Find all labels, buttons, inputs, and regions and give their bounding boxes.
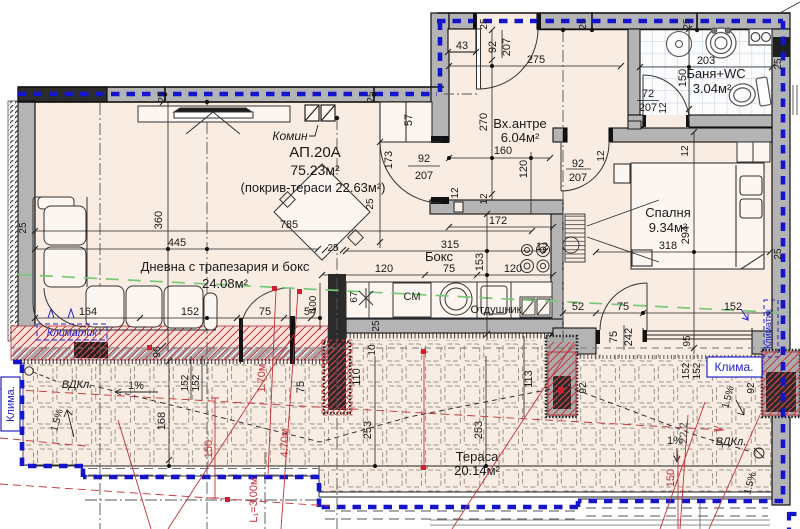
svg-text:43: 43 (456, 40, 468, 52)
dining table (rotated) (274, 164, 370, 260)
svg-text:92: 92 (746, 382, 757, 394)
blue annotation: Klima box right (707, 357, 762, 377)
dim line 173 vertical (379, 103, 381, 248)
dim line 318 bedroom (596, 251, 770, 253)
wall: bath south (with door opening) (628, 115, 643, 127)
svg-text:92: 92 (418, 153, 430, 165)
node dots (163, 28, 696, 468)
bed (614, 163, 764, 269)
dim line 785 (35, 230, 532, 232)
dim line 360 vertical (167, 102, 169, 352)
svg-text:9.34м²: 9.34м² (649, 220, 688, 235)
radiator bedroom (563, 200, 659, 262)
svg-text:Бокс: Бокс (425, 249, 454, 264)
svg-text:152: 152 (681, 362, 692, 379)
svg-text:СМ: СМ (404, 291, 421, 303)
dimension texts (18, 18, 784, 439)
pier: kitchen-bedroom (524, 336, 577, 417)
svg-text:25: 25 (365, 198, 376, 210)
svg-text:25: 25 (18, 222, 29, 234)
svg-text:1.70м: 1.70м (256, 364, 268, 393)
svg-text:92: 92 (572, 158, 584, 170)
dim line 270 vertical (491, 30, 493, 200)
bath: boiler circle (667, 32, 692, 57)
svg-text:Дневна с трапезария и бокс: Дневна с трапезария и бокс (141, 259, 310, 274)
svg-text:207: 207 (639, 102, 657, 114)
dim line 100 vertical (319, 283, 321, 330)
wall: kitchen north (430, 200, 563, 214)
wall: east exterior (772, 29, 790, 505)
dim line 445 (35, 248, 318, 250)
speckle row under bedroom south (553, 355, 772, 359)
svg-text:275: 275 (527, 54, 545, 66)
svg-text:318: 318 (659, 240, 677, 252)
svg-text:67: 67 (349, 291, 360, 303)
door: bedroom to terrace (600, 283, 647, 330)
svg-text:1%: 1% (128, 380, 144, 392)
terrace tile pattern (24, 340, 772, 466)
svg-text:168: 168 (156, 412, 168, 430)
svg-text:3.04м²: 3.04м² (693, 81, 732, 96)
svg-text:Вх.антре: Вх.антре (493, 116, 546, 131)
dark block in south band (AC unit) (74, 342, 108, 358)
gray dashed sill line across south walls (40, 347, 770, 349)
dimension ticks (32, 26, 775, 463)
svg-text:207: 207 (415, 170, 433, 182)
sofa (33, 197, 217, 330)
TV cabinet (138, 106, 290, 134)
dim line 160 (449, 157, 550, 159)
dim line 43 niche (448, 51, 476, 53)
wall: bedroom south piece west (553, 328, 596, 354)
svg-text:25: 25 (371, 320, 382, 332)
svg-text:110: 110 (351, 368, 363, 386)
fraction lines (637, 100, 659, 102)
svg-text:25: 25 (479, 18, 490, 30)
svg-text:12: 12 (479, 193, 490, 205)
axis dash-dot bottom horizontal (85, 499, 320, 501)
dim line 67 vertical (368, 282, 370, 318)
svg-text:150: 150 (665, 469, 677, 487)
dim line 153 vertical (486, 214, 488, 340)
svg-text:253: 253 (473, 421, 485, 439)
dim line 253 terrace a (374, 356, 376, 466)
room floor fill: living + dining (18, 87, 444, 341)
svg-text:ВДКл.: ВДКл. (62, 379, 93, 391)
svg-text:150: 150 (203, 440, 215, 458)
svg-text:96: 96 (152, 346, 163, 358)
misc: roof cut corner top right (778, 2, 800, 14)
svg-text:120: 120 (375, 263, 393, 275)
svg-text:72: 72 (642, 88, 654, 100)
dim line 275 entry (449, 65, 621, 67)
wall: bedroom north (with door opening) (553, 128, 567, 142)
dim line 172 (449, 226, 553, 228)
wall: west exterior (18, 101, 35, 332)
svg-text:75: 75 (259, 306, 271, 318)
svg-text:120: 120 (504, 263, 522, 275)
living south wall band with red hatch (11, 326, 328, 360)
dim line 203 bath (640, 66, 772, 68)
svg-text:Клима.: Клима. (715, 360, 754, 374)
svg-text:153: 153 (474, 253, 486, 271)
svg-text:152: 152 (180, 374, 191, 391)
svg-text:6.04м²: 6.04м² (501, 130, 540, 145)
wardrobe bedroom (737, 142, 770, 162)
svg-text:113: 113 (523, 370, 535, 388)
svg-text:120: 120 (518, 160, 530, 178)
dim line 168 vertical terrace (168, 361, 170, 466)
door jambs (black posts) (239, 13, 689, 364)
svg-text:22.2: 22.2 (678, 422, 690, 443)
svg-text:75: 75 (295, 381, 307, 393)
dim line 253 terrace b (485, 356, 487, 466)
svg-text:АП.20А: АП.20А (289, 144, 340, 161)
dimension lines (35, 29, 772, 466)
svg-text:75: 75 (617, 301, 629, 313)
svg-text:Баня+WC: Баня+WC (686, 66, 745, 81)
door: living to hall (380, 142, 441, 203)
blue annotation: Klimatik box living (37, 309, 107, 340)
red texts (203, 364, 690, 523)
dim line 52-75-152 bedroom (563, 312, 770, 314)
blue annotation: Klima box left (1, 377, 20, 431)
door: hall to bath (643, 75, 689, 121)
chimney boxes (305, 105, 335, 121)
bath: sink unit top-right (749, 29, 772, 45)
dim line 164-152-75-54 (35, 317, 320, 319)
svg-text:12: 12 (680, 145, 691, 157)
dark chimney block in east wall (773, 37, 790, 57)
wall: vertical step wall at entry (431, 13, 449, 142)
svg-text:75: 75 (608, 331, 620, 343)
svg-text:12: 12 (658, 102, 669, 114)
svg-text:12: 12 (596, 150, 607, 162)
bedroom window to terrace (643, 328, 752, 342)
wall: top exterior band (upper, right part) (449, 13, 476, 29)
svg-text:Клима.: Клима. (5, 386, 17, 422)
ceiling light symbol (359, 288, 373, 308)
green dashed utility line (18, 275, 788, 314)
svg-text:207: 207 (569, 172, 587, 184)
vent notch in kitchen north wall (454, 202, 463, 212)
svg-text:4.70м: 4.70м (279, 429, 291, 458)
dim line 150 bath vertical (688, 29, 690, 115)
room floor fill: kitchen box (328, 200, 563, 340)
svg-text:Спалня: Спалня (645, 205, 690, 220)
neighbour wall hatch strip (left) (8, 101, 18, 341)
svg-text:207: 207 (501, 38, 513, 56)
bath: washbasin (706, 28, 736, 58)
svg-text:24.08м²: 24.08м² (202, 276, 248, 291)
speckle row under kitchen south wall (346, 334, 563, 339)
parapet thin line under blue boundary (23, 362, 772, 499)
svg-text:Тераса: Тераса (456, 449, 499, 464)
wall: bath west (628, 29, 640, 115)
svg-text:12: 12 (450, 187, 461, 199)
door: entry (leaf+arc) (477, 29, 539, 89)
blue dashed: neighbour terrace bottom-right (788, 512, 800, 529)
dim line 315 (346, 250, 545, 252)
hob burners (521, 244, 550, 273)
axis line B (dash-dot x=337) (336, 118, 338, 529)
room floor fill: entry hall + bath strip (431, 13, 790, 203)
svg-text:152: 152 (191, 374, 202, 391)
wall: bedroom south piece east (752, 331, 772, 354)
kitchen counter row (346, 282, 552, 318)
svg-text:270: 270 (478, 113, 490, 131)
svg-text:25: 25 (578, 18, 589, 30)
svg-text:25: 25 (157, 91, 168, 103)
svg-text:92: 92 (487, 41, 499, 53)
dashed tile hint rows below blue boundary (325, 508, 768, 519)
dim line 75-120 kitchen (322, 274, 553, 276)
niche 43 in entry (448, 29, 476, 52)
dim lines 152 152 terrace (190, 356, 192, 400)
door: living to terrace (241, 288, 290, 330)
room floor fill: bedroom (553, 128, 790, 354)
axis line A (dash-dot x=207) (206, 102, 208, 529)
svg-text:785: 785 (280, 219, 298, 231)
svg-text:12: 12 (536, 241, 548, 253)
terrace base fill (24, 340, 772, 466)
door: hall to bedroom (561, 143, 609, 191)
svg-text:10: 10 (367, 344, 378, 356)
speckle row under living south band (13, 359, 328, 364)
svg-text:445: 445 (168, 237, 186, 249)
svg-text:Климатик: Климатик (47, 327, 99, 339)
pier: east (762, 350, 800, 417)
pier: central concrete column (328, 274, 346, 410)
svg-text:Климатик: Климатик (763, 309, 773, 349)
svg-text:L₁=3,00м: L₁=3,00м (248, 477, 260, 522)
svg-text:100: 100 (308, 295, 319, 312)
axis line C (dash-dot x=563) (562, 30, 564, 342)
svg-text:152: 152 (181, 306, 199, 318)
svg-text:52: 52 (572, 301, 584, 313)
svg-text:25: 25 (366, 91, 377, 103)
wall band edge lines + junction ticks (18, 13, 790, 102)
axis line D (dash-dot x=265 bottom) (264, 452, 266, 529)
svg-text:152: 152 (692, 362, 703, 379)
svg-text:173: 173 (383, 151, 395, 169)
small dashed tile row above bottom-left blue line (88, 469, 318, 476)
bottom parapet double lines (430, 503, 770, 529)
svg-text:Отдушник: Отдушник (470, 304, 521, 316)
axis line E (dash-dot x=100 bottom) (99, 103, 101, 529)
svg-text:92: 92 (578, 382, 589, 394)
bath: toilet (727, 77, 771, 111)
svg-text:360: 360 (153, 211, 165, 229)
bathroom tiled floor (640, 29, 772, 115)
svg-text:57: 57 (403, 114, 415, 126)
red node dots (147, 286, 564, 502)
svg-text:(покрив-тераси 22.63м²): (покрив-тераси 22.63м²) (240, 180, 385, 195)
red survey lines (0, 289, 760, 529)
dim line 294 vertical (693, 132, 695, 354)
svg-text:75.23м²: 75.23м² (290, 162, 340, 178)
svg-text:75: 75 (443, 263, 455, 275)
dim line 120 vertical (530, 152, 532, 214)
svg-text:Комин: Комин (272, 129, 308, 143)
svg-text:25: 25 (773, 58, 784, 70)
room label: apartment header (49, 66, 759, 496)
blue annotation: Klimatik vertical right (764, 300, 778, 357)
svg-text:25: 25 (682, 18, 693, 30)
svg-text:25: 25 (327, 243, 339, 254)
wall: top-left exterior band (18, 87, 444, 102)
vent boxes (otdushnik) (520, 297, 552, 317)
closet at entry west (380, 102, 432, 142)
svg-text:172: 172 (489, 215, 507, 227)
svg-text:25: 25 (773, 248, 784, 260)
slope arrows and leaders (25, 367, 764, 462)
svg-text:242: 242 (623, 328, 635, 346)
thin terrace edge lines (35, 466, 772, 497)
svg-text:95: 95 (682, 335, 693, 347)
svg-text:160: 160 (494, 145, 512, 157)
wall: kitchen east (551, 214, 563, 340)
wall: kitchen south (346, 319, 563, 333)
axis dash-dot short at top wall (444, 93, 480, 95)
svg-text:152: 152 (724, 301, 742, 313)
svg-text:164: 164 (79, 306, 97, 318)
